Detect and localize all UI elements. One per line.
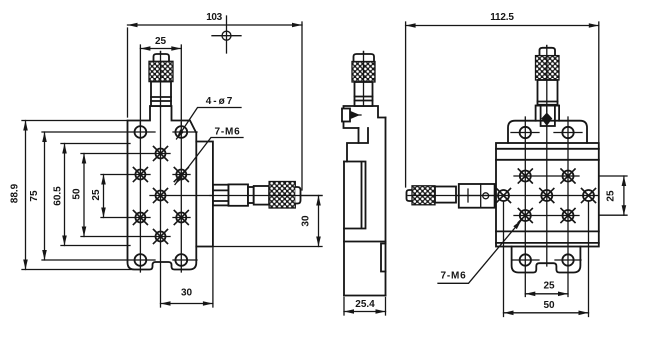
- front view right hole column centerline: [180, 123, 182, 273]
- horizontal micrometer knurled knob: [269, 182, 295, 209]
- side view bottom edge: [344, 295, 386, 297]
- dimension 60.5 left: [64, 144, 66, 246]
- side view channel slot: [344, 162, 366, 229]
- svg-text:88.9: 88.9: [10, 183, 21, 203]
- vertical micrometer cap: [154, 54, 170, 61]
- leader 7-M6 front: [175, 138, 243, 185]
- side view mount tab: [359, 128, 369, 143]
- svg-text:50: 50: [543, 300, 555, 311]
- front view top hole row centerline: [42, 131, 197, 133]
- side view top block: [344, 106, 386, 128]
- front view moving block right side: [196, 142, 213, 247]
- top view spindle collar: [536, 106, 560, 127]
- threaded hole M6 mid row right: [582, 189, 596, 203]
- side view micrometer centerline: [363, 52, 365, 107]
- side view right edge: [385, 118, 387, 296]
- leader 7-M6 top view: [438, 220, 522, 283]
- threaded hole M6 center top: [154, 147, 168, 161]
- threaded hole M6 center middle: [154, 189, 168, 203]
- top view micrometer axis centerline: [410, 195, 599, 197]
- left micrometer sleeve: [435, 187, 456, 203]
- front view left hole column centerline: [139, 123, 141, 273]
- threaded hole M6 right lower: [174, 211, 188, 225]
- dimension 25 left: [103, 175, 105, 218]
- side view slab left edge: [343, 162, 345, 296]
- dimension 30 bottom: [161, 303, 213, 305]
- side view step line: [344, 241, 386, 243]
- svg-text:25.4: 25.4: [355, 299, 375, 310]
- front view bottom hole row centerline: [42, 259, 197, 261]
- top view top bracket: [508, 121, 587, 143]
- threaded hole M6 mid row left: [497, 189, 511, 203]
- svg-text:112.5: 112.5: [490, 12, 514, 23]
- horizontal micrometer axis overlay: [210, 195, 322, 197]
- threaded hole M6 left upper: [133, 168, 147, 182]
- top view hole column centerlines: [525, 117, 568, 297]
- svg-text:30: 30: [181, 288, 193, 299]
- vertical micrometer barrel: [151, 82, 171, 106]
- threaded hole M6 mid row center: [540, 189, 554, 203]
- horizontal micrometer lock nut: [213, 185, 229, 206]
- top view body outline: [496, 143, 599, 247]
- top view micrometer barrel: [538, 80, 558, 106]
- front view stage plate outline: [128, 106, 197, 270]
- dimension 30 right: [318, 196, 320, 247]
- clearance hole top-left: [135, 126, 147, 138]
- side view micrometer centerline overlay: [363, 52, 365, 107]
- svg-text:7-M6: 7-M6: [215, 127, 241, 138]
- side view mid ledge: [347, 143, 359, 162]
- dimension 25.4 bottom: [344, 311, 386, 313]
- threaded hole M6 bottom row left: [518, 209, 532, 223]
- dimension 50 bottom: [504, 312, 589, 314]
- clearance hole top-right: [175, 126, 187, 138]
- svg-text:25: 25: [606, 190, 617, 202]
- svg-text:75: 75: [29, 190, 40, 202]
- dimension 25 bottom bracket: [525, 293, 568, 295]
- dimension 50 left: [83, 154, 85, 237]
- center target mark: [212, 16, 241, 53]
- threaded hole M6 top row right: [561, 169, 575, 183]
- top view micrometer cap: [540, 48, 556, 56]
- top view bottom bracket: [512, 247, 581, 273]
- top view bracket hole left: [511, 127, 539, 138]
- threaded hole M6 left lower: [133, 211, 147, 225]
- left micrometer knurled knob: [412, 186, 435, 205]
- threaded hole M6 bottom row right: [561, 209, 575, 223]
- dimension 103 top: [128, 24, 303, 26]
- dimension 112.5 top: [406, 25, 599, 27]
- svg-text:4-ø7: 4-ø7: [206, 96, 235, 107]
- clearance hole bottom-left: [135, 254, 147, 266]
- svg-text:25: 25: [91, 189, 102, 201]
- dimension 25 top: [140, 48, 181, 50]
- horizontal micrometer ring: [248, 187, 254, 203]
- top view centerline overlays: [546, 46, 548, 113]
- vertical micrometer knurled thimble: [149, 61, 173, 81]
- vertical micrometer barrel graduation lines: [151, 97, 171, 101]
- side view micrometer barrel graduation lines: [355, 97, 373, 101]
- left micrometer body block: [459, 184, 495, 208]
- svg-text:30: 30: [301, 215, 312, 227]
- side view micrometer barrel: [355, 82, 373, 106]
- top view hole row centerlines: [514, 176, 627, 216]
- svg-text:25: 25: [155, 36, 167, 47]
- horizontal micrometer thimble: [254, 186, 269, 205]
- side view right notch: [381, 244, 386, 272]
- top view lamination lines: [496, 149, 599, 243]
- dimension 75 left: [44, 132, 46, 260]
- top view micrometer barrel graduation lines: [538, 102, 558, 105]
- side view clamp screw: [342, 109, 361, 122]
- front view mid hole row centerlines: [81, 154, 190, 237]
- svg-text:60.5: 60.5: [53, 186, 64, 206]
- dimension 25 right side: [623, 176, 625, 215]
- top view micrometer knurled thimble: [536, 56, 560, 80]
- threaded hole M6 center bottom: [154, 230, 168, 244]
- top view bottom bracket hole left: [512, 254, 539, 265]
- svg-text:25: 25: [543, 281, 555, 292]
- svg-text:50: 50: [72, 188, 83, 200]
- dimension 88.9 left: [25, 121, 27, 270]
- svg-text:103: 103: [206, 12, 222, 23]
- threaded hole M6 right upper: [174, 168, 188, 182]
- side view micrometer cap: [354, 54, 375, 62]
- vertical micrometer centerline overlay: [160, 52, 162, 108]
- front view micrometer centerline vertical: [160, 52, 162, 308]
- clearance hole bottom-right: [175, 254, 187, 266]
- top view spindle tip: [541, 113, 552, 127]
- horizontal micrometer sleeve: [229, 184, 249, 205]
- svg-text:7-M6: 7-M6: [441, 271, 467, 282]
- top view micrometer centerline: [546, 46, 548, 267]
- left micrometer end cap: [407, 190, 413, 201]
- front view micrometer axis horizontal: [150, 195, 322, 197]
- top view bracket hole right: [554, 127, 582, 138]
- top view bottom bracket hole right: [555, 254, 581, 265]
- horizontal micrometer end cap: [295, 187, 300, 204]
- threaded hole M6 top row left: [518, 169, 532, 183]
- leader 4-dia7: [177, 108, 242, 140]
- side view micrometer knurled thimble: [352, 62, 375, 83]
